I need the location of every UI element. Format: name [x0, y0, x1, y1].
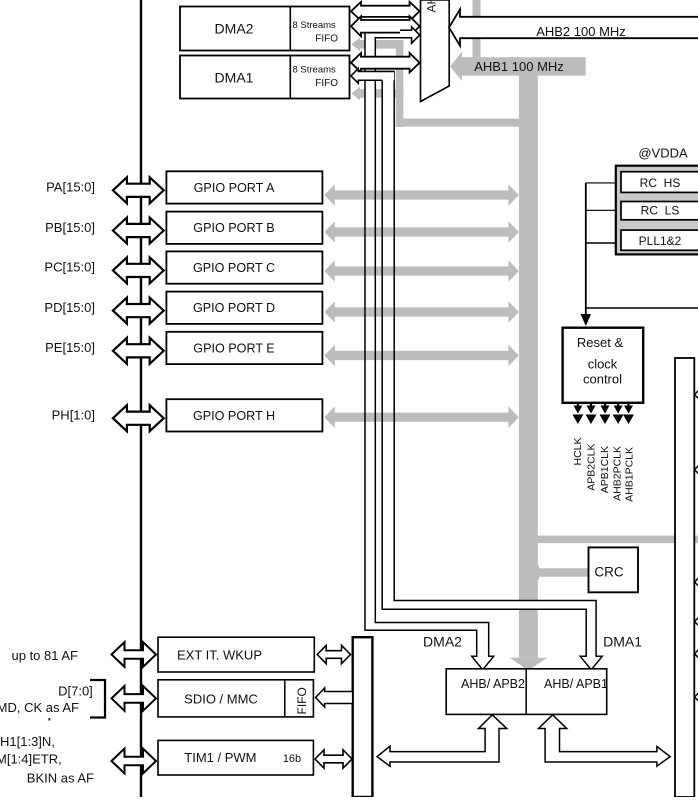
svg-text:AHB1 100 MHz: AHB1 100 MHz [474, 59, 564, 74]
svg-text:8 Streams: 8 Streams [293, 20, 337, 31]
svg-text:GPIO PORT A: GPIO PORT A [194, 181, 275, 195]
svg-text:AHB/ APB2: AHB/ APB2 [461, 677, 525, 691]
svg-text:PE[15:0]: PE[15:0] [45, 340, 95, 355]
svg-text:Reset &: Reset & [577, 335, 624, 350]
svg-text:@VDDA: @VDDA [638, 145, 688, 160]
svg-text:PD[15:0]: PD[15:0] [44, 300, 95, 315]
svg-text:clock: clock [588, 357, 618, 372]
svg-text:EXT IT. WKUP: EXT IT. WKUP [177, 648, 262, 663]
svg-text:FIFO: FIFO [295, 687, 309, 714]
svg-text:GPIO PORT D: GPIO PORT D [193, 301, 275, 315]
svg-text:AHB1PCLK: AHB1PCLK [623, 447, 635, 502]
svg-text:DMA2: DMA2 [215, 21, 254, 37]
svg-text:DMA1: DMA1 [603, 634, 642, 650]
svg-text:M[1:4]ETR,: M[1:4]ETR, [0, 752, 62, 767]
svg-text:DMA2: DMA2 [423, 634, 462, 650]
svg-text:8 Streams: 8 Streams [293, 65, 337, 76]
svg-text:GPIO PORT H: GPIO PORT H [193, 409, 275, 423]
svg-text:BKIN as AF: BKIN as AF [27, 771, 94, 786]
svg-text:D[7:0]: D[7:0] [58, 684, 93, 699]
svg-text:SDIO / MMC: SDIO / MMC [184, 691, 258, 706]
svg-text:PB[15:0]: PB[15:0] [45, 220, 95, 235]
svg-text:APB1CLK: APB1CLK [599, 446, 611, 493]
svg-text:FIFO: FIFO [315, 34, 338, 45]
svg-text:PC[15:0]: PC[15:0] [44, 260, 95, 275]
svg-text:FIFO: FIFO [315, 78, 338, 89]
svg-text:AHB2 100 MHz: AHB2 100 MHz [536, 24, 626, 39]
svg-text:HCLK: HCLK [572, 438, 584, 466]
svg-text:RC LS: RC LS [641, 204, 680, 218]
svg-text:PH[1:0]: PH[1:0] [52, 408, 95, 423]
svg-text:PA[15:0]: PA[15:0] [46, 180, 95, 195]
svg-text:TIM1 / PWM: TIM1 / PWM [184, 750, 256, 765]
svg-text:control: control [583, 372, 622, 387]
svg-text:CRC: CRC [594, 565, 623, 580]
svg-text:AHB/ APB1: AHB/ APB1 [544, 677, 608, 691]
svg-text:PLL1&2: PLL1&2 [639, 234, 682, 248]
svg-text:RC HS: RC HS [640, 176, 681, 190]
svg-text:GPIO PORT C: GPIO PORT C [193, 261, 275, 275]
svg-text:APB2CLK: APB2CLK [586, 444, 598, 491]
svg-text:DMA1: DMA1 [215, 70, 254, 86]
svg-text:MD, CK as AF: MD, CK as AF [0, 700, 79, 715]
svg-text:H1[1:3]N,: H1[1:3]N, [0, 734, 55, 749]
svg-text:GPIO PORT E: GPIO PORT E [193, 341, 274, 355]
svg-text:up to 81 AF: up to 81 AF [12, 648, 79, 663]
svg-text:GPIO PORT B: GPIO PORT B [193, 221, 274, 235]
svg-text:16b: 16b [283, 753, 301, 765]
svg-text:AHB2PCLK: AHB2PCLK [612, 446, 624, 501]
svg-text:AHB: AHB [425, 0, 439, 13]
